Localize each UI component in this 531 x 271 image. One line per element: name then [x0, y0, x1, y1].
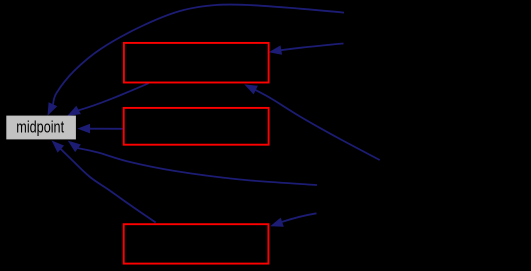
node B2: red-bordered box (label hidden on black)	[124, 108, 269, 145]
wire: edge F from hidden right node N1 into box B1 right edge	[281, 44, 344, 51]
arrowhead of edge D	[52, 140, 65, 152]
wire: edge H from hidden right node N2 into box B3 top-right corner	[282, 213, 317, 222]
svg-text:midpoint: midpoint	[16, 117, 64, 136]
wire: edge D from box B3 top edge to node midpoint bottom edge	[61, 149, 156, 223]
arrowhead of edge C	[77, 124, 90, 134]
node B3: red-bordered box (label hidden on black)	[124, 224, 269, 263]
arrowhead of edge A at midpoint top edge	[48, 102, 58, 116]
wire: edge B from box B1 bottom edge to node midpoint top edge	[78, 83, 148, 110]
wire: edge A from hidden right node N1 arcing over the top into node midpoint	[53, 4, 344, 104]
arrowhead of edge E	[68, 141, 81, 153]
arrowhead of edge H	[270, 218, 284, 227]
arrowhead of edge B	[67, 106, 81, 116]
node B1: red-bordered box (label hidden on black)	[124, 43, 269, 83]
wire: edge E long curve from hidden right node N2 to node midpoint bottom edge	[78, 148, 317, 185]
wire: edge C from box B2 left edge to node midpoint right edge	[88, 128, 124, 130]
wire: edge G diagonal from hidden right node N2 into box B1 bottom edge	[256, 90, 380, 160]
arrowhead of edge F	[269, 45, 282, 54]
arrowhead of edge G under box B1 bottom edge	[244, 84, 258, 94]
node midpoint: grey filled box	[6, 116, 76, 140]
